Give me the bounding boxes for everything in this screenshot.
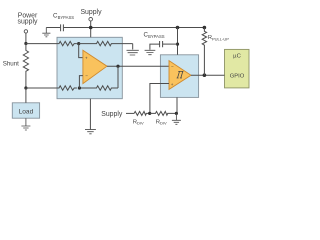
- resistor R1 (amp +input): [57, 41, 77, 45]
- terminal supply: [89, 17, 93, 21]
- wire comparator output: [191, 74, 225, 76]
- resistor R2 (amp +input to gnd): [79, 41, 133, 45]
- resistor R4 feedback: [79, 86, 118, 90]
- node supply rail / amp: [89, 26, 93, 30]
- ground (bypass cap 2): [145, 50, 156, 54]
- node amp output/feedback: [116, 65, 119, 68]
- terminal power supply: [24, 30, 27, 33]
- svg-text:Supply: Supply: [80, 9, 102, 16]
- supply rail wire: [46, 27, 204, 29]
- load box: [12, 103, 39, 118]
- node rail / pull-up: [203, 26, 207, 30]
- capacitor C_BYPASS 2: [160, 41, 163, 47]
- wire opamp output: [107, 65, 169, 67]
- svg-text:Shunt: Shunt: [3, 60, 19, 67]
- svg-text:BYPASS: BYPASS: [58, 15, 75, 20]
- wire bypass2 right: [163, 43, 178, 45]
- op-amp U1 triangle: [83, 50, 107, 83]
- resistor R_DIV 1: [134, 111, 150, 115]
- wire amp ground pin: [89, 99, 91, 130]
- comparator block box: [160, 55, 198, 98]
- wire comparator gnd pin: [176, 97, 178, 113]
- wire node to opamp +in: [79, 44, 83, 58]
- wire bypass2 left to ground: [150, 44, 160, 50]
- ground (bypass cap 1): [42, 28, 50, 37]
- svg-text:GPIO: GPIO: [230, 73, 245, 79]
- ground (amp +input R2): [127, 50, 139, 55]
- node divider ground: [175, 112, 178, 115]
- ground (divider): [172, 113, 181, 124]
- svg-text:+: +: [85, 56, 88, 61]
- svg-text:+: +: [171, 82, 174, 87]
- hysteresis symbol: [177, 71, 184, 78]
- svg-text:PULL-UP: PULL-UP: [212, 36, 229, 41]
- wire comparator +input: [150, 84, 169, 114]
- resistor R_DIV 2: [150, 111, 177, 115]
- wire comparator supply stem: [177, 28, 179, 55]
- svg-text:DIV: DIV: [160, 121, 167, 126]
- wire to amp +input resistor: [26, 43, 57, 45]
- node shunt bottom: [24, 86, 27, 89]
- svg-text:µC: µC: [233, 54, 241, 60]
- ground (load): [21, 118, 30, 130]
- comparator U2 triangle: [169, 61, 191, 90]
- svg-text:−: −: [85, 73, 88, 78]
- svg-text:Load: Load: [19, 108, 34, 115]
- wire power supply down: [25, 33, 27, 43]
- resistor R_PULL-UP: [202, 28, 206, 76]
- svg-text:DIV: DIV: [137, 121, 144, 126]
- node comparator supply stem top: [176, 26, 180, 30]
- svg-text:−: −: [171, 64, 174, 69]
- wire supply to divider: [126, 112, 134, 114]
- wire feedback down: [117, 66, 119, 88]
- microcontroller box U3: [225, 49, 250, 88]
- node amp -input divider: [78, 86, 81, 89]
- capacitor C_BYPASS 1: [61, 24, 64, 31]
- node divider tap: [148, 112, 151, 115]
- amplifier block box: [57, 37, 122, 98]
- node power/shunt top: [24, 42, 27, 45]
- wire shunt bottom to load: [25, 88, 27, 103]
- ground (amp): [85, 130, 96, 134]
- svg-text:BYPASS: BYPASS: [148, 34, 165, 39]
- svg-text:Supply: Supply: [101, 111, 123, 118]
- node bypass2 tap: [176, 43, 179, 46]
- wire node to opamp -in: [79, 76, 83, 88]
- wire R2 to ground: [132, 44, 134, 50]
- resistor R3 (amp -input): [57, 86, 77, 90]
- node output / pull-up: [203, 73, 207, 77]
- wire supply terminal to amp V+: [90, 21, 92, 37]
- wire shunt bottom to amp -input resistor: [26, 87, 57, 89]
- resistor shunt: [23, 44, 28, 89]
- node amp +input divider: [77, 42, 80, 45]
- svg-text:supply: supply: [18, 19, 38, 26]
